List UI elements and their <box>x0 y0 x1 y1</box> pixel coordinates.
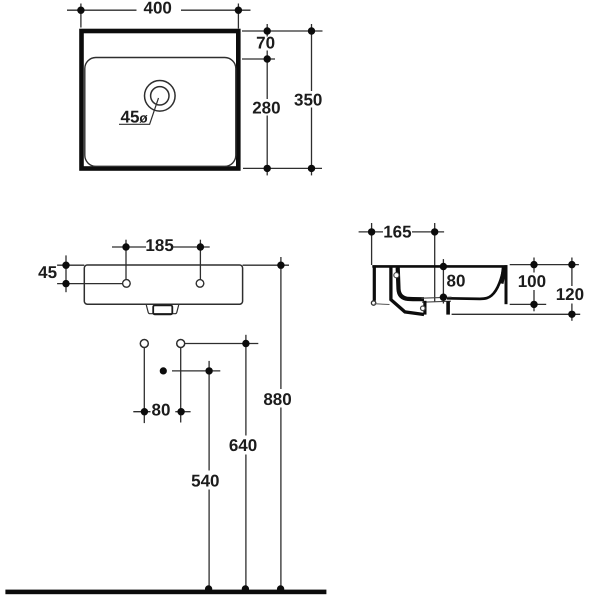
extension line bottom right y=168.4 <box>243 167 322 169</box>
svg-text:80: 80 <box>152 401 171 420</box>
bracket bottom circle <box>371 301 375 305</box>
right wall upper thickening <box>501 267 504 284</box>
basin back wall + bottom interior <box>398 268 424 300</box>
svg-text:540: 540 <box>191 472 219 491</box>
dim 100 vertical <box>533 258 535 273</box>
front view drain inner rect <box>153 305 172 314</box>
front view left tap hole <box>123 280 131 288</box>
dim 165 <box>359 223 445 302</box>
svg-text:45: 45 <box>38 263 57 282</box>
top view outer rim (thick rectangle) <box>82 31 239 169</box>
dim 80 (side) <box>442 259 444 303</box>
shelf hole circle <box>421 306 426 311</box>
dim 880 <box>243 257 289 589</box>
side view rim (top band) <box>372 265 507 268</box>
dots right side top view <box>264 27 316 172</box>
extension line top right y=31 <box>242 24 323 175</box>
front view right tap hole <box>196 280 204 288</box>
floor line <box>5 590 326 595</box>
top view basin inner rounded rectangle <box>85 58 236 167</box>
dim 70/280 vertical line x=267.2 <box>266 24 268 37</box>
front view body rectangle <box>84 265 242 304</box>
svg-text:45ø: 45ø <box>121 108 149 127</box>
dim 400 line <box>67 4 251 29</box>
svg-text:165: 165 <box>383 222 411 241</box>
svg-text:70: 70 <box>256 34 275 53</box>
basin bottom right of drain + right interior curve <box>447 267 504 299</box>
drain box right wall <box>446 301 450 314</box>
right outer wall bar <box>505 265 508 304</box>
svg-text:185: 185 <box>145 236 173 255</box>
dim 640 <box>185 335 259 590</box>
svg-text:350: 350 <box>294 91 322 110</box>
dim 185 <box>112 240 210 280</box>
dim 540 <box>172 361 220 589</box>
drain stub dot (filled) <box>160 367 167 374</box>
dim 45 <box>57 255 123 292</box>
bracket bottom thin closure <box>375 303 390 306</box>
extension line y=59 (basin top edge) <box>242 58 275 60</box>
drain inner circle <box>151 87 169 105</box>
wall fixing hole right <box>177 340 185 348</box>
wall fixing hole left <box>140 340 148 348</box>
drain box left wall <box>423 301 426 315</box>
svg-text:400: 400 <box>144 0 172 18</box>
leader line for 45ø <box>119 98 159 124</box>
svg-text:880: 880 <box>263 390 291 409</box>
svg-text:280: 280 <box>252 99 280 118</box>
svg-text:640: 640 <box>229 436 257 455</box>
dim 120 vertical <box>571 258 573 287</box>
bracket inner wall + underside shelf <box>391 267 424 315</box>
svg-text:100: 100 <box>518 272 546 291</box>
side view bracket outer wall <box>373 265 376 300</box>
dim 400 dots <box>77 7 242 14</box>
dim 350 vertical line x=311.5 <box>311 24 313 91</box>
svg-text:120: 120 <box>556 285 584 304</box>
verticals from fixing holes down to 80 dim <box>133 348 190 423</box>
side extension lines right <box>452 258 581 321</box>
front view drain trapezoid <box>146 305 178 314</box>
dim 80 ticks <box>133 411 150 413</box>
back wall fixing hole notch <box>394 273 399 278</box>
svg-text:80: 80 <box>447 271 466 290</box>
drain outer circle <box>145 81 176 112</box>
drain flange thin lines <box>422 297 452 302</box>
